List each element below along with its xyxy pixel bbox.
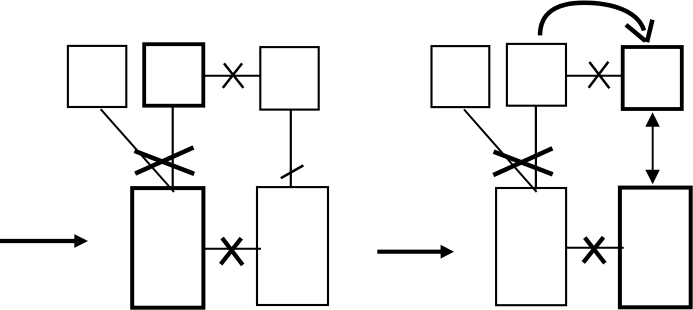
X mark on wire C2-C3 [589,62,610,89]
X mark on wire A2-A3 [223,63,244,88]
diagonal wire A1 to B1 [101,109,174,192]
box B2 tall [257,187,328,305]
thick X crossing wires into B1 [135,147,195,174]
diagonal wire C1 to D1 [464,109,537,192]
bold X mark on wire D1-D2 [583,237,605,263]
box D1 tall (right group) [496,188,566,305]
box A1 small top-left [68,46,126,107]
box A2 small top-middle bold [144,44,203,105]
left arrow (input transition) [0,234,88,248]
vertical wire C2 to D1 [535,106,537,190]
double-headed arrow between C3 and D2 [645,112,660,184]
thick X crossing wires into D1 [493,148,552,175]
box B1 tall bold [132,188,203,308]
vertical wire A2 to B1 [172,106,174,190]
curved arrow from C2 over to C3 [540,3,652,43]
middle arrow (transition between states) [377,245,454,259]
box C3 small top-right bold (right group) [623,47,682,109]
vertical wire A3 to B2 [290,110,292,188]
wire C2 to C3 [566,75,623,77]
box A3 small top-right [260,47,318,110]
bold X mark on wire B1-B2 [221,238,243,265]
box D2 tall bold (right group) [620,188,691,308]
wire D1 to D2 [566,247,624,249]
wire B1 to B2 [203,248,261,250]
box C2 small top-middle (right group) [507,44,566,106]
box C1 small top-left (right group) [432,46,490,107]
wire A2 to A3 [203,75,260,77]
slash break mark on wire A3-B2 [281,165,304,178]
